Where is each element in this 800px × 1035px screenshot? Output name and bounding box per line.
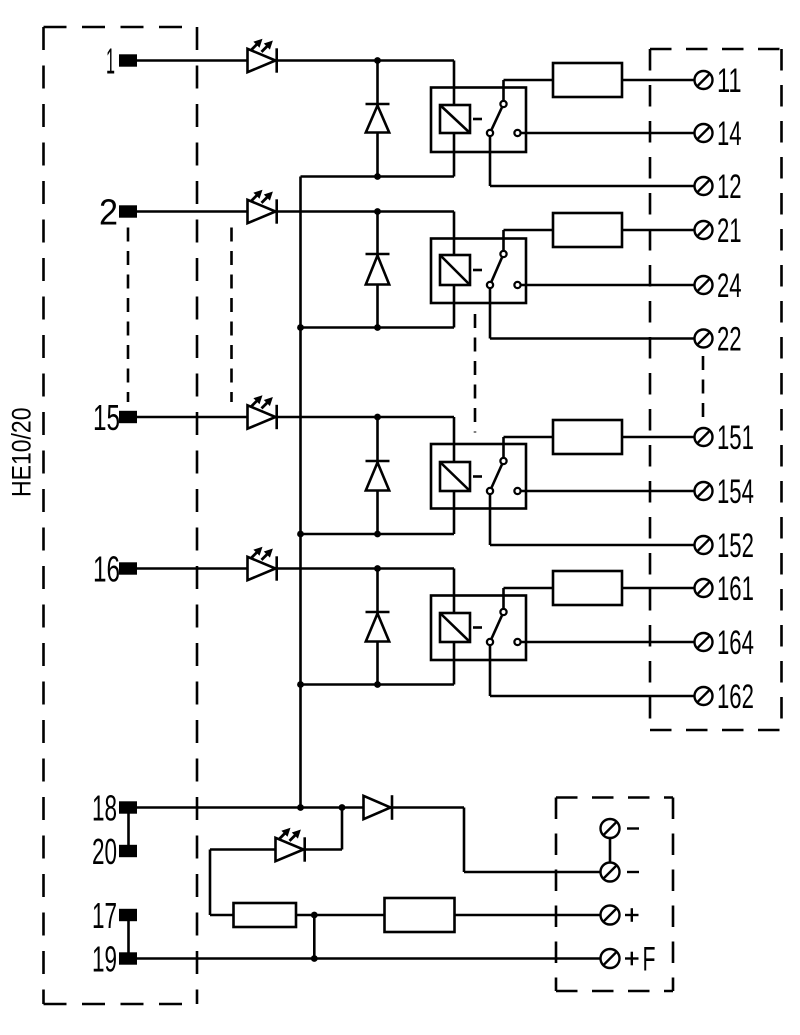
svg-text:17: 17: [92, 895, 117, 936]
svg-text:154: 154: [717, 473, 754, 511]
svg-text:F: F: [643, 941, 656, 979]
svg-text:20: 20: [92, 831, 117, 872]
svg-text:11: 11: [717, 62, 742, 100]
svg-text:152: 152: [717, 527, 754, 565]
svg-text:161: 161: [717, 570, 754, 608]
svg-text:22: 22: [717, 321, 742, 359]
svg-text:12: 12: [717, 168, 742, 206]
svg-text:15: 15: [93, 397, 120, 438]
svg-text:151: 151: [717, 419, 754, 457]
svg-text:14: 14: [717, 115, 742, 153]
svg-text:21: 21: [717, 212, 742, 250]
svg-text:18: 18: [92, 788, 117, 829]
svg-text:162: 162: [717, 678, 754, 716]
svg-text:24: 24: [717, 267, 742, 305]
svg-text:16: 16: [93, 549, 120, 590]
svg-text:19: 19: [92, 939, 117, 980]
svg-text:HE10/20: HE10/20: [7, 408, 37, 498]
svg-text:2: 2: [99, 192, 118, 233]
svg-text:1: 1: [106, 41, 115, 82]
svg-text:164: 164: [717, 624, 754, 662]
